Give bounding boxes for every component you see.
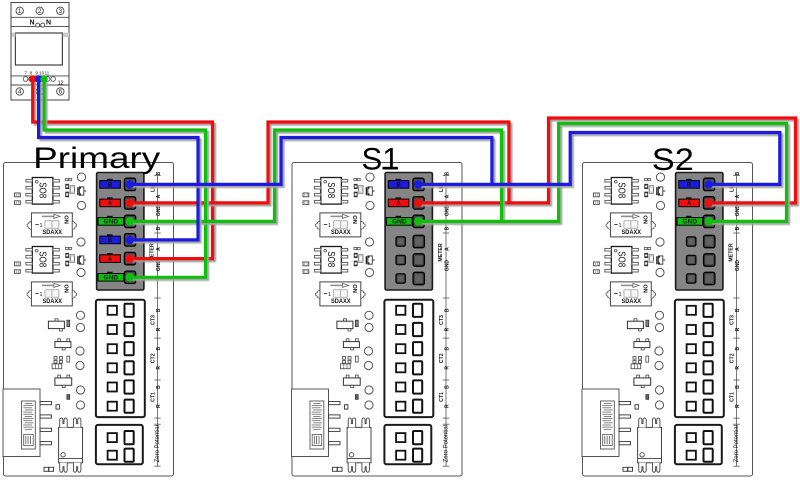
connector row A [388,197,424,209]
wire A: S1 A to S2 A [418,118,795,203]
wire GND: S1 GND to S2 GND [418,123,786,221]
energy meter M1 [11,3,69,101]
svg-text:A: A [108,257,113,263]
connector row GND [98,215,136,227]
spare plug pair [687,254,715,266]
wire GND: meter 10 to Primary METER GND [44,79,206,277]
svg-text:B: B [396,183,401,189]
title S1 [362,141,400,177]
wire shadow A: Primary LM A to S1 A [132,124,511,205]
meter terminal 5 [36,88,43,96]
node connector contact [705,217,713,225]
wire A: meter 8 to Primary METER A [33,79,213,259]
wire shadow B: S1 B to S2 B [421,135,783,187]
node connector contact [414,180,422,188]
node connector contact [126,180,134,188]
spare plug pair [396,235,424,247]
wire GND: Primary LM GND to S1 GND [130,130,502,221]
svg-text:GND: GND [683,220,698,226]
node meter terminal 10 (green dot) [40,75,47,82]
svg-text:GND: GND [392,220,407,226]
connector row B [100,234,136,246]
connector row GND [387,215,425,227]
wire shadow B: meter 9 to Primary METER B [41,81,200,242]
wire B: meter 9 to Primary METER B [39,79,198,240]
svg-text:3: 3 [59,8,63,15]
meter terminal hole [51,77,56,82]
svg-text:S2: S2 [652,141,694,177]
svg-text:Primary: Primary [33,142,160,175]
svg-text:N: N [46,19,51,26]
node connector contact [126,236,134,244]
meter section line [11,25,69,27]
meter terminal 3 [57,7,64,15]
wire B: Primary LM B to S1 B [130,138,492,185]
node meter terminal 8 (red dot) [29,75,36,82]
meter terminal 1 [16,7,23,15]
node connector contact [705,180,713,188]
meter terminal hole [34,77,39,82]
svg-text:B: B [108,238,113,244]
board Primary PCB [3,163,174,477]
board S1 PCB [292,163,463,477]
node connector contact [126,254,134,262]
node connector contact [126,217,134,225]
wire B: S1 B to S2 B [418,133,780,185]
connector row A [679,197,715,209]
svg-text:GND: GND [104,220,119,226]
wire shadow A: S1 A to S2 A [421,120,798,205]
meter terminal 2 [36,7,43,15]
connector row B [679,178,715,190]
node connector contact [126,273,134,281]
svg-text:S1: S1 [362,141,400,177]
meter terminal hole [23,77,28,82]
meter body [11,3,69,101]
connector row B [100,178,136,190]
display shade [63,33,69,38]
connector block body [97,173,144,291]
wire shadow GND: meter 10 to Primary METER GND [46,81,208,279]
svg-text:N: N [29,19,34,26]
svg-text:4: 4 [18,89,22,96]
svg-text:B: B [108,183,113,189]
svg-text:6: 6 [59,89,63,96]
spare plug pair [396,272,424,284]
connector row A [100,197,136,209]
connector row B [388,178,424,190]
spare plug pair [687,272,715,284]
connector row A [100,252,136,264]
svg-text:A: A [687,201,692,207]
node meter terminal 9 (blue dot) [35,75,42,82]
meter terminal hole [45,77,50,82]
neutral link circle [41,23,45,27]
connector row GND [677,215,715,227]
meter terminal 6 [57,88,64,96]
connector block body [676,173,723,291]
svg-text:B: B [687,183,692,189]
meter terminal hole [29,77,34,82]
svg-text:2: 2 [38,8,42,15]
wire shadow B: Primary LM B to S1 B [132,140,494,187]
connector block body [385,173,432,291]
meter section line [11,84,69,86]
svg-text:A: A [108,201,113,207]
LCD display [15,33,62,65]
neutral link circle [36,23,40,27]
svg-text:11: 11 [45,71,50,76]
node connector contact [414,217,422,225]
wire shadow GND: S1 GND to S2 GND [421,126,789,224]
meter terminal 4 [16,88,23,96]
spare plug pair [687,235,715,247]
node connector contact [414,199,422,207]
svg-text:1: 1 [18,8,22,15]
svg-text:12: 12 [58,81,64,87]
svg-text:A: A [396,201,401,207]
board S2 PCB [582,163,753,477]
wire shadow GND: Primary LM GND to S1 GND [132,132,504,223]
meter section line [11,75,69,77]
wire A: Primary LM A to S1 A [130,122,509,203]
spare plug pair [396,254,424,266]
node connector contact [126,199,134,207]
connector row GND [98,271,136,283]
meter terminal hole [40,77,45,82]
node connector contact [705,199,713,207]
meter section line [11,16,69,18]
wire shadow A: meter 8 to Primary METER A [35,81,215,261]
svg-text:GND: GND [104,276,119,282]
